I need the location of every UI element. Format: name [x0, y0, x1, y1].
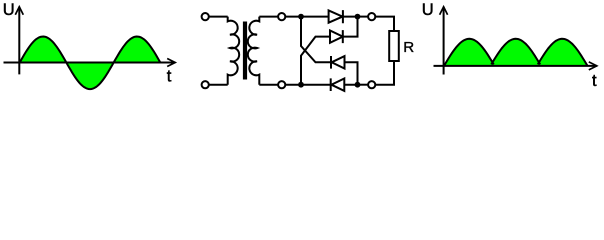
left graph t-axis arrowhead — [167, 59, 175, 67]
diode D4 — [331, 78, 358, 91]
diode D2 — [330, 17, 358, 43]
junction dot DC- node — [355, 82, 361, 88]
svg-text:t: t — [167, 67, 172, 85]
wire: secondary bottom to AC terminal — [259, 84, 277, 86]
wire: resistor bottom to output terminal bottom — [375, 61, 394, 85]
svg-text:R: R — [403, 39, 414, 56]
left graph vertical axis (U axis) — [18, 7, 20, 75]
wire: output terminal top to resistor — [375, 17, 394, 31]
input sine waveform outline — [20, 37, 161, 90]
wire: AC terminal bottom to bridge node B — [286, 84, 331, 86]
AC output terminal bottom (open circle) — [278, 81, 285, 88]
DC output terminal bottom (open circle) — [368, 81, 375, 88]
junction dot node B — [298, 82, 304, 88]
left graph U-axis arrowhead — [15, 7, 23, 15]
right graph vertical axis (U axis) — [443, 7, 445, 75]
transformer primary winding — [228, 17, 239, 85]
diode D1 — [329, 10, 358, 23]
svg-text:U: U — [3, 1, 15, 19]
transformer secondary winding — [248, 17, 259, 85]
wire: output terminal bottom to DC- node — [358, 84, 368, 86]
left graph horizontal axis (t axis) — [4, 62, 176, 64]
wire: secondary top to AC terminal — [259, 16, 277, 18]
svg-text:U: U — [422, 1, 434, 19]
DC output terminal top (open circle) — [368, 13, 375, 20]
diode D3 — [331, 56, 358, 85]
input sine waveform green fill — [20, 37, 161, 90]
AC output terminal top (open circle) — [278, 13, 285, 20]
rectified output waveform green fill — [444, 39, 588, 66]
svg-text:t: t — [592, 72, 597, 90]
input terminal (top-left, open circle) — [202, 13, 209, 20]
input terminal (bottom-left, open circle) — [202, 81, 209, 88]
resistor R body — [389, 31, 399, 61]
wire: AC terminal top to bridge node A — [286, 16, 329, 18]
junction dot DC+ node — [355, 14, 361, 20]
wire: node B up and diagonal to diode D2 anode — [301, 37, 330, 85]
junction dot node A — [298, 14, 304, 20]
rectified output waveform outlines — [444, 39, 588, 66]
transformer core — [243, 22, 247, 80]
right graph U-axis arrowhead — [440, 7, 448, 15]
right graph horizontal axis (t axis) — [434, 65, 597, 67]
wire: DC+ node to output terminal — [358, 16, 368, 18]
right graph t-axis arrowhead — [589, 62, 597, 70]
wire: node A down and diagonal to diode D3 cathode — [301, 17, 331, 63]
wire: top input terminal to primary winding — [209, 16, 228, 18]
wire: bottom input terminal to primary winding — [209, 84, 228, 86]
